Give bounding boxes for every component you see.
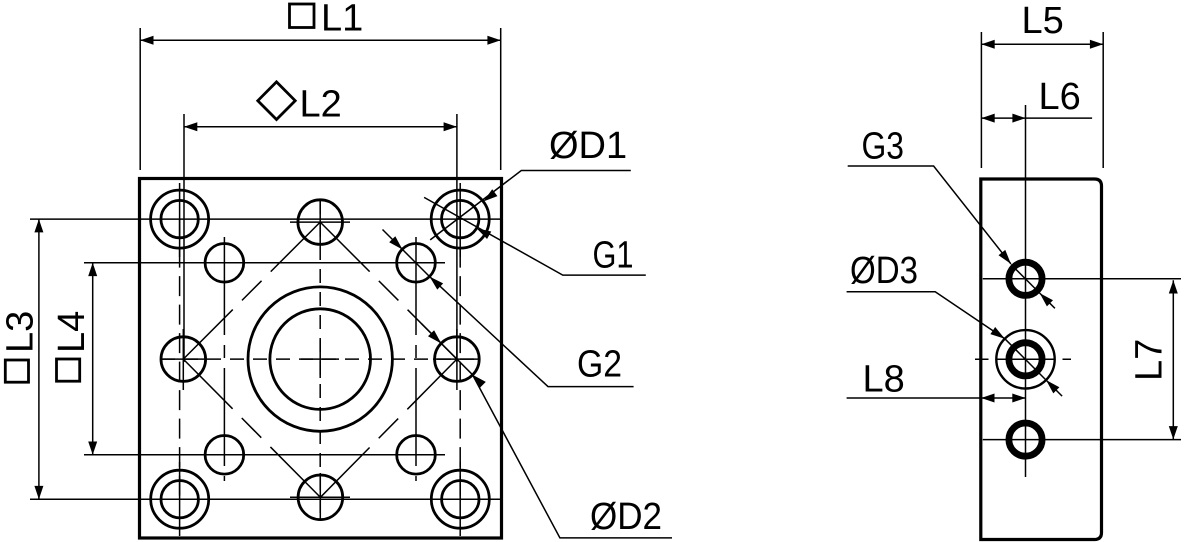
vertical centerline solid through top diamond hole (319, 200, 321, 246)
L2 extension line left (183, 114, 185, 362)
svg-text:G3: G3 (862, 126, 905, 168)
svg-text:L1: L1 (321, 0, 363, 40)
side view thin lines (847, 32, 1181, 477)
G1 arrowhead (474, 224, 491, 239)
leader OD1 (430, 171, 631, 240)
L4 arrow bottom (88, 442, 97, 455)
leader OD2 (473, 375, 673, 538)
G3 second arrow tail (1040, 293, 1055, 308)
square symbol L4 (57, 359, 80, 381)
central bore horizontal cross (301, 358, 339, 360)
L6 arrow right (1012, 114, 1025, 123)
corner hole vertical dashed column left (179, 219, 181, 499)
OD3 second arrowhead (1043, 377, 1059, 393)
corner hole BL vertical centerline (179, 462, 181, 536)
diamond hole right (435, 337, 480, 382)
G3 diagonal across top hole (1011, 265, 1040, 294)
horizontal centerline solid through right diamond hole (433, 358, 480, 360)
corner counterbored hole bottom-left (151, 470, 209, 528)
L8 dimension line (847, 397, 1026, 399)
L5 arrow left (981, 40, 994, 49)
corner hole BR vertical centerline (459, 462, 461, 536)
L1 dimension line (140, 39, 501, 41)
corner counterbored hole top-left (151, 190, 209, 248)
diamond chain edge top-left (183, 222, 320, 359)
G2 second arrowhead (389, 236, 405, 252)
diamond chain edge top-right (320, 222, 457, 359)
small hole upper-right (397, 243, 436, 282)
square symbol L1 (290, 4, 315, 28)
svg-text:L5: L5 (1022, 0, 1064, 42)
G2 diagonal across small hole (403, 250, 430, 277)
L5 dimension line (981, 43, 1103, 45)
vertical centerline solid through bottom diamond hole (319, 473, 321, 519)
G3 arrowhead (999, 250, 1015, 267)
small hole chain column left (223, 237, 225, 481)
top diamond hole horizontal centerline (290, 221, 350, 223)
side hole middle OD3 ring (1009, 343, 1042, 376)
L1 extension left (139, 28, 141, 170)
leader G2 (430, 277, 634, 387)
OD2 diagonal across hole (441, 344, 472, 375)
OD3 arrowhead (990, 327, 1007, 342)
L2 extension line right (456, 114, 458, 362)
vertical centerline side (1025, 105, 1027, 477)
side hole middle OD3 outer (996, 330, 1054, 388)
diamond hole left (161, 337, 206, 382)
svg-text:L6: L6 (1039, 76, 1081, 118)
small hole upper-left (205, 243, 244, 282)
L3 extension bottom row (30, 498, 502, 500)
square symbol L3 (5, 360, 28, 382)
L3 dimension line (38, 219, 40, 499)
L4 extension top (84, 262, 445, 264)
leader G3 (848, 166, 1011, 264)
OD3 diagonal across middle hole (1005, 339, 1046, 380)
central bore outer (248, 287, 392, 431)
L4 arrow top (88, 263, 97, 276)
L2 dimension line (184, 126, 457, 128)
G2 second arrow tail (383, 230, 403, 250)
svg-text:ØD3: ØD3 (850, 250, 918, 292)
centerlines thin (30, 28, 502, 536)
L1 extension right (500, 28, 502, 170)
plate horizontal chain centerline (161, 358, 481, 360)
diamond chain edge bottom-left (183, 359, 320, 497)
svg-text:ØD1: ØD1 (549, 125, 627, 167)
small hole lower-right (397, 436, 436, 475)
L7 arrow top (1169, 280, 1178, 293)
diamond hole bottom (298, 475, 343, 520)
plate outline side view (981, 179, 1102, 540)
svg-text:G2: G2 (577, 344, 622, 386)
side view holes (996, 262, 1054, 456)
L2 arrow left (184, 122, 197, 131)
svg-text:G1: G1 (593, 235, 634, 277)
label L3 (0, 311, 42, 353)
arrows (34, 36, 500, 500)
leader G1 (424, 197, 646, 275)
small hole lower-left (205, 436, 244, 475)
svg-text:L4: L4 (51, 311, 93, 353)
OD3 second arrow tail (1046, 380, 1062, 396)
L2 arrow right (444, 122, 457, 131)
left diamond hole vertical centerline (182, 329, 184, 390)
corner hole TR vertical centerline (459, 183, 461, 257)
OD2 second arrowhead (428, 330, 444, 346)
top hole horizontal centerline / L7 extension (983, 278, 1181, 280)
L1 arrow right (487, 36, 500, 45)
central bore vertical cross (319, 340, 321, 378)
L4 dimension line (92, 263, 94, 455)
corner counterbored hole top-right (431, 190, 489, 248)
svg-text:L3: L3 (0, 311, 42, 353)
L8 arrow right (1012, 394, 1025, 403)
svg-text:L7: L7 (1129, 339, 1171, 381)
label L4 (51, 311, 93, 353)
L5 arrow right (1090, 40, 1103, 49)
corner hole vertical dashed column right (459, 219, 461, 499)
OD1 arrowhead (481, 189, 498, 205)
L7 arrow bottom (1169, 426, 1178, 439)
side hole top G3 (1009, 262, 1042, 295)
holes front view (thick) (151, 190, 490, 528)
diamond symbol L2 (258, 82, 295, 120)
G2 arrowhead (427, 273, 443, 289)
L4 extension bottom (84, 454, 445, 456)
L5 extension left (980, 32, 982, 168)
L8 arrow left (981, 394, 994, 403)
OD2 arrowhead (469, 372, 485, 388)
L6 arrow left (981, 114, 994, 123)
diamond hole top (298, 200, 343, 245)
L1 arrow left (140, 36, 153, 45)
L6 dimension line (981, 117, 1092, 119)
leader OD3 (847, 292, 1005, 339)
OD2 second arrow tail (421, 324, 441, 344)
plate vertical chain centerline (319, 200, 321, 519)
label L7 (1129, 339, 1171, 381)
L3 arrow top (34, 219, 43, 232)
corner counterbored hole bottom-right (431, 470, 489, 528)
small hole chain column right (415, 237, 417, 481)
L3 extension top row (30, 218, 502, 220)
corner hole TL vertical centerline (179, 183, 181, 257)
middle hole chain centerline (975, 358, 1071, 360)
central bore inner (270, 309, 371, 410)
G3 second arrowhead (1037, 290, 1053, 306)
L5 extension right (1102, 32, 1104, 168)
L3 arrow bottom (34, 486, 43, 499)
L7 dimension line (1172, 280, 1174, 439)
svg-text:ØD2: ØD2 (590, 496, 662, 538)
svg-text:L8: L8 (863, 359, 905, 401)
horizontal centerline solid through left diamond hole (161, 358, 207, 360)
svg-text:L2: L2 (300, 84, 342, 126)
side hole bottom (1009, 423, 1042, 456)
diamond chain edge bottom-right (320, 359, 457, 497)
right diamond hole vertical centerline (456, 329, 458, 390)
bottom hole horizontal centerline / L7 extension (983, 439, 1181, 441)
plate outline front view (140, 179, 502, 539)
bottom diamond hole horizontal centerline (290, 496, 350, 498)
side arrows (981, 40, 1178, 440)
